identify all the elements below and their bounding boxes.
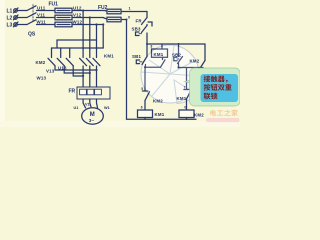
- svg-text:3: 3: [150, 44, 152, 48]
- svg-text:KM2: KM2: [194, 113, 204, 118]
- svg-text:FR: FR: [136, 19, 143, 24]
- svg-text:W12: W12: [73, 20, 83, 25]
- svg-text:KM2: KM2: [36, 60, 46, 65]
- svg-text:KM1: KM1: [177, 96, 187, 101]
- svg-text:6: 6: [141, 105, 143, 109]
- svg-text:W13: W13: [37, 76, 47, 81]
- svg-text:U1: U1: [74, 106, 79, 110]
- svg-text:V11: V11: [37, 13, 46, 18]
- svg-text:0: 0: [184, 105, 186, 109]
- svg-text:W11: W11: [37, 20, 47, 25]
- svg-text:3~: 3~: [89, 118, 95, 123]
- svg-text:FU1: FU1: [49, 2, 59, 8]
- svg-text:KM1: KM1: [104, 54, 114, 59]
- svg-text:KM2: KM2: [190, 59, 200, 64]
- svg-text:U12: U12: [73, 6, 82, 11]
- svg-text:KM1: KM1: [154, 52, 164, 57]
- svg-text:1: 1: [129, 7, 131, 11]
- svg-text:SB3: SB3: [132, 26, 141, 31]
- svg-text:QS: QS: [28, 32, 36, 38]
- svg-text:L1: L1: [7, 9, 13, 15]
- svg-text:SB1: SB1: [132, 54, 141, 59]
- svg-text:FU2: FU2: [98, 5, 108, 11]
- svg-text:U13: U13: [58, 66, 67, 71]
- svg-text:5: 5: [141, 87, 143, 91]
- svg-text:L3: L3: [7, 23, 13, 29]
- svg-text:V13: V13: [46, 69, 55, 74]
- svg-text:SB2: SB2: [172, 53, 181, 58]
- svg-text:W1: W1: [104, 106, 110, 110]
- svg-text:V1: V1: [85, 103, 90, 107]
- svg-text:FR: FR: [69, 89, 76, 95]
- svg-text:U11: U11: [37, 6, 46, 11]
- svg-text:0: 0: [128, 15, 130, 19]
- svg-text:7: 7: [184, 86, 186, 90]
- svg-text:KM1: KM1: [155, 112, 165, 117]
- svg-text:L2: L2: [7, 16, 13, 22]
- svg-text:KM2: KM2: [153, 99, 163, 104]
- svg-text:V12: V12: [73, 13, 82, 18]
